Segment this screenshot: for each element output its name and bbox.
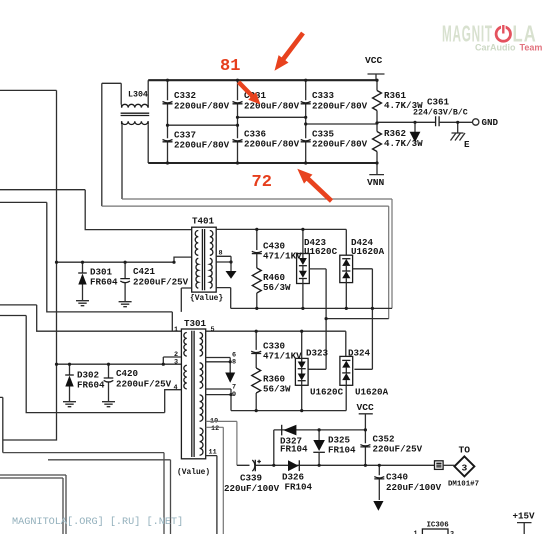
svg-text:56/3W: 56/3W (263, 384, 291, 395)
capacitor C339 (224, 460, 280, 494)
jumper link component (435, 461, 444, 470)
svg-text:2200uF/25V: 2200uF/25V (133, 277, 189, 288)
svg-text:9: 9 (232, 391, 236, 399)
resistor R361 (373, 80, 424, 122)
power VNN bottom (367, 163, 385, 188)
svg-text:VCC: VCC (365, 55, 383, 66)
svg-text:C361: C361 (427, 97, 450, 108)
wire gray from L304 input over to right vertical (101, 83, 103, 206)
svg-text:72: 72 (252, 173, 272, 192)
red arrow A top (275, 32, 305, 71)
node GND circle (473, 117, 499, 128)
svg-text:C421: C421 (133, 266, 156, 277)
svg-text:2200uF/80V: 2200uF/80V (312, 139, 368, 150)
power +15V bottom right (513, 511, 536, 534)
resistor R360 (252, 368, 291, 411)
svg-text:FR604: FR604 (90, 277, 118, 288)
wire D302 C420 rail to T301 pin3 (57, 363, 182, 365)
svg-text:U1620A: U1620A (351, 246, 385, 257)
svg-text:DM101#7: DM101#7 (448, 481, 479, 489)
diode D302 (65, 364, 105, 401)
svg-text:220uF/100V: 220uF/100V (386, 482, 442, 493)
ground for D302 (63, 402, 76, 407)
capacitor C337 (163, 125, 230, 163)
resistor R362 (373, 122, 424, 163)
svg-text:56/3W: 56/3W (263, 282, 291, 293)
ground for D301 (76, 301, 89, 306)
wire mid rail segments (168, 117, 378, 125)
wire upper diode rail (274, 430, 366, 465)
wire T401 lower-left pin to W2 net (181, 288, 191, 312)
svg-text:4: 4 (174, 384, 178, 392)
wire output to L304 input net (326, 318, 389, 320)
wire long bottom horizontal to lower-left (3, 453, 164, 534)
ground for C421 (119, 302, 132, 307)
wire T301 pin5 rail (206, 331, 346, 356)
capacitor C336 (233, 125, 300, 163)
wire T301 pins6 8 jog with arrow (206, 358, 236, 383)
svg-text:GND: GND (482, 117, 499, 128)
svg-text:1: 1 (174, 326, 178, 334)
svg-text:220uF/100V: 220uF/100V (224, 483, 280, 494)
svg-text:2200uF/80V: 2200uF/80V (244, 139, 300, 150)
transformer T401 (190, 216, 223, 304)
svg-text:U1620C: U1620C (310, 387, 344, 398)
wire T301 secondary bottom rail (231, 385, 346, 410)
wire T301 pin2 jog (163, 357, 181, 364)
diode D326 (282, 460, 313, 492)
capacitor C420 (104, 364, 172, 401)
svg-text:471/1KV: 471/1KV (263, 351, 302, 362)
svg-text:8: 8 (232, 359, 236, 367)
wire W2 to T401 lower-left pin net (0, 202, 172, 331)
svg-text:3: 3 (462, 462, 468, 473)
wire top rail of cap bank (148, 79, 377, 81)
inductor L304 (102, 80, 149, 199)
dual diode D423 (297, 229, 338, 308)
wire D424 center tap down to D324 (353, 269, 373, 370)
svg-text:IC306: IC306 (427, 522, 450, 530)
svg-text:224/63V/B/C: 224/63V/B/C (413, 108, 468, 118)
svg-text:VCC: VCC (357, 402, 375, 413)
connector diamond DM101#7 (448, 445, 479, 489)
box double outline lower-left (0, 475, 66, 534)
svg-text:C339: C339 (240, 473, 262, 484)
svg-text:FR604: FR604 (77, 380, 105, 391)
svg-text:220uF/25V: 220uF/25V (373, 444, 423, 455)
svg-text:C420: C420 (116, 368, 138, 379)
wire T301 pin12 gray down (206, 427, 224, 534)
svg-text:1: 1 (414, 530, 418, 534)
resistor R460 (252, 268, 291, 308)
wire R361-R362 junction to C361 (377, 121, 435, 123)
svg-text:T401: T401 (192, 216, 215, 227)
svg-text:Team: Team (520, 43, 543, 53)
wire lower output rail (237, 464, 434, 466)
wire T301 pins7 9 jog (206, 389, 231, 411)
svg-text:VNN: VNN (367, 177, 385, 188)
svg-text:2200uF/80V: 2200uF/80V (244, 101, 300, 112)
svg-text:FR104: FR104 (328, 445, 356, 456)
capacitor C352 (360, 430, 422, 465)
logo MAGNITOLA top right (442, 20, 542, 52)
svg-text:2200uF/80V: 2200uF/80V (174, 140, 230, 151)
power VCC top (365, 55, 385, 80)
svg-text:3: 3 (174, 359, 178, 367)
dual diode D424 (340, 229, 385, 308)
wire gray from L304 lower winding to right vertical (122, 199, 392, 308)
capacitor C430 (252, 229, 302, 268)
wire T401 pin8 tap with arrow (216, 250, 236, 279)
capacitor C340 with arrow to ground (373, 465, 441, 511)
svg-text:+15V: +15V (513, 511, 536, 522)
wire jumper to connector (443, 464, 455, 466)
capacitor C330 (251, 331, 302, 368)
capacitor C361 (413, 97, 472, 127)
svg-text:C332: C332 (174, 90, 196, 101)
wire W4 T301 pin4 wire (0, 316, 181, 413)
svg-text:FR104: FR104 (280, 444, 308, 455)
svg-text:4.7K/3W: 4.7K/3W (384, 138, 423, 149)
svg-text:5: 5 (211, 326, 215, 334)
svg-text:81: 81 (220, 57, 240, 76)
svg-text:12: 12 (211, 425, 219, 433)
capacitor C421 (120, 262, 188, 301)
svg-text:T301: T301 (184, 318, 207, 329)
wire W3 T301 pin1 rail (0, 305, 181, 331)
transformer T301 (177, 318, 210, 477)
diode D301 (78, 262, 118, 300)
svg-text:2200uF/80V: 2200uF/80V (312, 101, 368, 112)
wire second lower-left horizontal (48, 460, 171, 534)
arrow net marker down at VNN node (410, 122, 421, 142)
power VCC mid (357, 402, 375, 430)
diode D325 (313, 430, 356, 465)
IC306 bottom (414, 522, 455, 534)
wire T401 secondary top rail (216, 228, 346, 230)
pin number labels T301 (174, 326, 237, 457)
wire T401 lower-right pin to bottom rail (216, 288, 231, 309)
capacitor C335 (301, 124, 368, 163)
capacitor C332 (163, 80, 230, 125)
chassis ground E (451, 122, 471, 150)
svg-text:C340: C340 (386, 472, 408, 483)
wire W1 to T401 upper-left pin (0, 190, 192, 230)
capacitor C333 (301, 80, 368, 124)
svg-text:D323: D323 (306, 348, 329, 359)
wire bottom rail of cap bank (148, 162, 377, 164)
svg-text:3: 3 (450, 531, 454, 534)
wire D323 center tap up (308, 368, 326, 370)
svg-text:2200uF/80V: 2200uF/80V (174, 101, 230, 112)
diode D327 (280, 425, 308, 455)
svg-text:FR104: FR104 (285, 482, 313, 493)
svg-text:L304: L304 (128, 91, 148, 100)
capacitor C331 (233, 80, 300, 125)
wire T401 secondary bottom rail (231, 307, 392, 309)
ground for C420 (102, 402, 115, 407)
dual diode D323 (295, 331, 343, 410)
wire T301 pin11 down (206, 456, 217, 534)
svg-text:TO: TO (459, 445, 471, 456)
red arrow B small at C331 (237, 81, 261, 105)
svg-text:(Value): (Value) (177, 468, 210, 477)
svg-text:MAGNITOLA[.ORG] [.RU] [.NET]: MAGNITOLA[.ORG] [.RU] [.NET] (12, 516, 183, 528)
svg-text:{Value}: {Value} (190, 294, 223, 303)
wire D423 center tap (309, 269, 326, 369)
svg-text:U1620A: U1620A (355, 387, 389, 398)
wire D301 C421 rail (57, 257, 192, 262)
wire top-left input net (0, 90, 57, 452)
dual diode D324 (340, 348, 389, 398)
svg-text:2200uF/25V: 2200uF/25V (116, 379, 172, 390)
wire T301 pin10 gray to C339 (206, 421, 237, 465)
svg-text:E: E (464, 139, 470, 150)
svg-text:CarAudio: CarAudio (475, 43, 516, 53)
red arrow C pointing to 72 rail (297, 169, 333, 203)
svg-text:C333: C333 (312, 90, 335, 101)
